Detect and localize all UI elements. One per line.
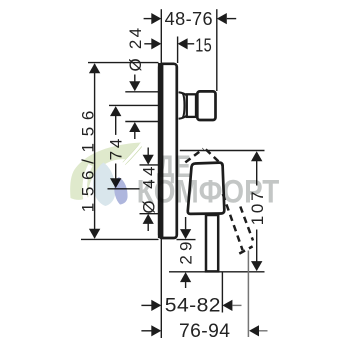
dashed handle tilted: front edge: [206, 149, 223, 165]
stem neck waist arc: [183, 94, 185, 118]
dimension 54-82 right arrow: [222, 300, 232, 311]
watermark logo leaf: [70, 143, 141, 200]
watermark logo dark green arc: [124, 146, 141, 164]
dimension 15 left arrow: [144, 43, 151, 45]
wire: centerline extension of valve axis: [109, 104, 159, 106]
watermark logo cyan teardrop: [93, 163, 116, 207]
wire: handle hub top extension line (Ø44): [140, 164, 159, 166]
wire: 107 top extension line: [180, 150, 265, 152]
svg-text:48-76: 48-76: [165, 9, 213, 29]
wire: plate-front extension line (15 right): [177, 37, 179, 64]
dimension 48-76 right arrow: [217, 13, 227, 24]
dashed lever rotated: tip cap: [239, 246, 252, 253]
handle lever rod: [206, 215, 218, 271]
dimension 107 line with arrows: [251, 151, 262, 161]
stem block (volume control): [197, 91, 215, 120]
dashed lever rotated: right edge: [240, 207, 253, 241]
watermark logo white swoosh: [85, 165, 91, 200]
wire: stem bottom extension line (Ø24): [125, 121, 158, 123]
wire: lever bottom extension line: [169, 271, 265, 273]
dimension 156/156 line with arrows: [94, 64, 96, 238]
handle body: [188, 163, 225, 214]
wire: 29 top extension line: [177, 239, 196, 241]
svg-text:15: 15: [195, 35, 212, 55]
dashed handle tilted: top edge: [185, 149, 203, 163]
watermark logo leaf vein: [121, 144, 142, 167]
dashed lever rotated: left edge: [223, 194, 243, 250]
wire: handle hub bottom extension line (Ø44): [140, 213, 159, 215]
dimension 74 line with arrows: [110, 106, 121, 116]
wire: wall-plane extension line bottom: [160, 239, 162, 338]
dimension 54-82 left arrow: [141, 304, 151, 306]
wire: stem top extension line (Ø24): [125, 91, 158, 93]
svg-text:54-82: 54-82: [165, 295, 221, 316]
svg-text:Ø 24: Ø 24: [126, 28, 145, 72]
wire: stem-front extension line (48-76 right): [216, 9, 218, 91]
dimension Ø24 arrows: [134, 75, 136, 83]
escutcheon plate body: [159, 64, 177, 238]
dimension 76-94 left arrow: [141, 330, 151, 332]
wire: wall-plane extension line top (48-76 left): [160, 9, 162, 63]
dimension 15 right arrow: [178, 38, 188, 49]
wire: handle front extension line (54-82 right): [221, 273, 223, 313]
dimension 29 arrows: [185, 217, 187, 229]
wire: plate top extension line: [88, 62, 159, 64]
svg-text:КОМФОРТ: КОМФОРТ: [137, 173, 280, 209]
watermark logo slate wedge: [114, 177, 127, 205]
wire: lever tip extension line gray (76-94 right): [247, 251, 249, 338]
wire: handle axis extension line: [108, 188, 140, 190]
dimension 48-76 left arrow: [144, 18, 152, 20]
wire: plate bottom extension line: [81, 238, 159, 240]
stem neck bottom curve: [179, 116, 187, 119]
dimension 76-94 right arrow: [249, 325, 259, 336]
escutcheon plate wall flange (filled): [158, 63, 164, 238]
stem ring: [187, 94, 196, 117]
svg-text:76-94: 76-94: [179, 321, 230, 342]
dimension Ø44 arrows: [147, 148, 149, 156]
stem neck top curve: [179, 92, 187, 95]
